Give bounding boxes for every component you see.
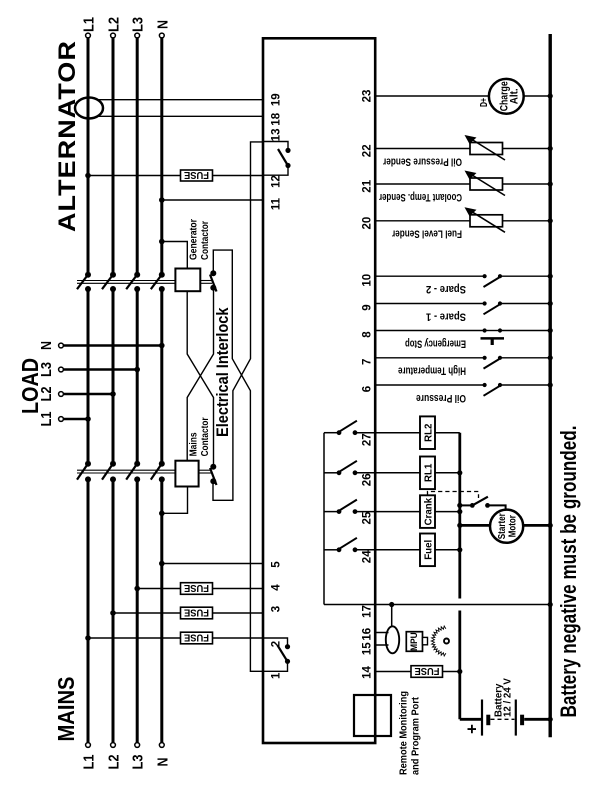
svg-text:Fuel Level Sender: Fuel Level Sender xyxy=(391,228,462,240)
wire terminal 6 upper xyxy=(375,384,484,386)
engine flywheel ring gear xyxy=(431,626,446,656)
node LOAD terminal L1 xyxy=(59,417,64,422)
svg-text:N: N xyxy=(38,341,55,350)
svg-text:17: 17 xyxy=(362,605,374,618)
node MAINS terminal L2 xyxy=(111,743,116,748)
input contact 9 xyxy=(483,301,503,314)
sender arrow Coolant Temp. Sender xyxy=(465,171,506,196)
wire relay Crank to positive rail xyxy=(435,511,460,513)
wire terminal 7 lower xyxy=(500,357,550,359)
svg-text:and Program Port: and Program Port xyxy=(411,697,422,775)
svg-text:Battery negative must be groun: Battery negative must be grounded. xyxy=(556,426,581,718)
label FUSE F2 xyxy=(184,582,209,594)
label terminal 6 xyxy=(362,386,374,392)
internal output common rail xyxy=(323,433,325,605)
wire alternator bus N right segment xyxy=(160,38,163,275)
wire bus L2 middle segment xyxy=(112,289,115,464)
junction bus tap terminal 2 xyxy=(85,635,91,641)
svg-text:Remote Monitoring: Remote Monitoring xyxy=(399,691,410,775)
generator contactor pole L3 left contact xyxy=(134,286,140,292)
wire terminal 20 lower xyxy=(503,220,551,222)
svg-text:Spare - 2: Spare - 2 xyxy=(426,283,466,295)
label relay Fuel xyxy=(424,540,435,560)
label D+ xyxy=(479,98,490,107)
mains contactor pole L1 blade xyxy=(77,464,88,480)
wire terminal 26 to relay box xyxy=(355,472,420,474)
junction 6 on negative bus xyxy=(548,382,553,387)
wire alternator bus L2 right segment xyxy=(112,38,115,275)
label ALTERNATOR terminal L2 xyxy=(106,17,123,32)
label terminal 13 xyxy=(271,129,283,142)
label MAINS terminal L1 xyxy=(81,755,98,770)
label input Spare - 1 xyxy=(426,310,466,322)
label Mains Contactor xyxy=(189,417,211,456)
label battery plus xyxy=(463,724,482,734)
wire interlock Q generator NC aux to mains coil xyxy=(187,288,213,461)
starter motor M1 xyxy=(490,510,523,543)
junction battery on negative bus xyxy=(548,717,553,722)
svg-text:6: 6 xyxy=(362,386,374,392)
flywheel center mark xyxy=(444,639,449,644)
wire interlock S terminal 13 to mains NC aux xyxy=(213,142,263,500)
node MAINS terminal L1 xyxy=(86,743,91,748)
svg-text:L1: L1 xyxy=(81,17,98,32)
generator contactor pole L1 left contact xyxy=(85,286,91,292)
junction starter motor feed on rail xyxy=(457,523,462,528)
label terminal 24 xyxy=(362,550,374,563)
svg-text:Oil Pressure: Oil Pressure xyxy=(416,392,466,404)
label terminal 26 xyxy=(362,473,374,486)
generator contactor pole L2 left contact xyxy=(110,286,116,292)
junction generator coil N tap xyxy=(159,239,165,245)
svg-text:Alt.: Alt. xyxy=(508,88,520,104)
generator contactor pole L2 right contact xyxy=(110,272,116,278)
svg-text:Motor: Motor xyxy=(506,515,518,537)
label terminal 25 xyxy=(362,511,374,524)
starter solenoid contact xyxy=(460,497,506,510)
svg-text:Emergency Stop: Emergency Stop xyxy=(405,337,466,349)
fuse F1 generator sensing xyxy=(181,170,213,181)
label terminal 21 xyxy=(362,179,374,192)
wire terminal 22 lower xyxy=(503,148,551,150)
label FUSE F5 xyxy=(415,665,440,677)
wire terminal 3 upper xyxy=(113,612,181,614)
label FUSE F4 xyxy=(184,631,209,643)
svg-text:20: 20 xyxy=(362,217,374,230)
input contact 10 xyxy=(483,274,503,287)
wire generator coil to N xyxy=(162,242,188,269)
label MPU xyxy=(409,632,419,651)
svg-text:High Temperature: High Temperature xyxy=(398,365,466,377)
wire terminal 12 from fuse to box xyxy=(213,175,264,177)
MPU pickup coil ellipse xyxy=(386,626,399,653)
wire mains bus L1 left segment xyxy=(87,479,90,742)
svg-text:18: 18 xyxy=(271,112,283,125)
node LOAD terminal L2 xyxy=(59,392,64,397)
junction 9 on negative bus xyxy=(548,301,553,306)
mains contactor NC aux contact xyxy=(210,464,217,485)
junction 17 on negative bus xyxy=(548,602,553,607)
label terminal 12 xyxy=(271,175,283,188)
label input High Temperature xyxy=(398,365,466,377)
sender resistor Oil Pressure Sender xyxy=(470,143,503,155)
junction LOAD L3 on bus xyxy=(134,367,140,373)
label Oil Pressure Sender xyxy=(382,155,462,167)
wire mains bus L3 left segment xyxy=(136,479,139,742)
wire terminal 14 lower xyxy=(443,671,460,673)
svg-text:Mains: Mains xyxy=(189,432,200,456)
label LOAD terminal L3 xyxy=(38,362,55,377)
wire terminal 20 upper xyxy=(375,220,470,222)
wire battery negative bus xyxy=(549,34,552,737)
node MAINS terminal N xyxy=(159,743,164,748)
svg-text:19: 19 xyxy=(271,93,283,106)
svg-text:11: 11 xyxy=(271,197,283,210)
battery B1 cell2 short plate xyxy=(520,715,524,726)
junction N tap terminal 11 xyxy=(159,197,165,203)
wire terminal 10 lower xyxy=(500,275,550,277)
svg-text:3: 3 xyxy=(271,606,283,612)
wire battery positive rail right segment xyxy=(458,433,461,599)
battery B1 cell1 short plate xyxy=(486,715,490,726)
svg-text:4: 4 xyxy=(271,584,283,591)
wire bus L1 middle segment xyxy=(87,289,90,464)
wire alternator bus L1 right segment xyxy=(87,38,90,275)
wire terminal 14 upper xyxy=(375,671,411,673)
generator contactor pole L2 blade xyxy=(102,275,113,290)
svg-text:8: 8 xyxy=(362,331,374,338)
junction starter solenoid branch on rail xyxy=(457,503,462,508)
battery dashed middle xyxy=(491,718,515,720)
wire terminal 25 to relay box xyxy=(355,511,420,513)
relay box Crank xyxy=(420,495,435,528)
junction 22 on negative bus xyxy=(548,146,553,151)
svg-text:21: 21 xyxy=(362,179,374,192)
fuse F2 mains sensing xyxy=(181,583,213,595)
label terminal 18 xyxy=(271,112,283,125)
svg-text:12: 12 xyxy=(271,175,283,188)
wire terminal 23 lower xyxy=(524,95,551,97)
junction LOAD L1 on bus xyxy=(85,416,91,422)
label input Emergency Stop xyxy=(405,337,466,349)
svg-text:L2: L2 xyxy=(38,387,55,402)
mains contactor pole L3 right contact xyxy=(134,461,140,467)
mains contactor pole L2 left contact xyxy=(110,476,116,482)
wire LOAD L3 drop xyxy=(64,368,138,371)
svg-text:15: 15 xyxy=(362,642,374,655)
svg-text:N: N xyxy=(154,20,171,29)
wire interlock P generator coil to mains NC aux xyxy=(187,291,213,467)
label input Spare - 2 xyxy=(426,283,466,295)
mains contactor pole L1 left contact xyxy=(85,476,91,482)
wire terminal 8 lower xyxy=(500,330,550,332)
label MAINS terminal L2 xyxy=(106,755,123,770)
svg-text:23: 23 xyxy=(362,90,374,103)
junction relay Fuel on positive rail xyxy=(457,547,462,552)
junction relay RL1 on positive rail xyxy=(457,470,462,475)
wire terminal 27 to relay box xyxy=(355,432,420,434)
label input Oil Pressure xyxy=(416,392,466,404)
wire rail to starter motor xyxy=(460,524,491,527)
mains contactor pole L2 right contact xyxy=(110,461,116,467)
label terminal 16 xyxy=(362,628,374,641)
junction 23 on negative bus xyxy=(548,93,553,98)
wire terminal 21 upper xyxy=(375,183,470,185)
junction 21 on negative bus xyxy=(548,181,553,186)
remote program port connector xyxy=(354,695,391,736)
svg-text:FUSE: FUSE xyxy=(184,582,209,594)
junction MPU branch on 17 xyxy=(389,602,394,607)
wire CT to terminal 19 xyxy=(97,99,263,101)
junction relay Crank on positive rail xyxy=(457,509,462,514)
svg-text:L1: L1 xyxy=(81,755,98,770)
mains contactor pole N left contact xyxy=(159,476,165,482)
svg-text:12 / 24 V: 12 / 24 V xyxy=(502,678,513,717)
wire alternator bus L3 right segment xyxy=(136,38,139,275)
label terminal 14 xyxy=(362,666,374,679)
wire terminal 5 xyxy=(162,563,263,565)
fuse F5 battery supply xyxy=(411,666,443,678)
svg-text:7: 7 xyxy=(362,359,374,365)
node LOAD terminal N xyxy=(59,343,64,348)
node ALTERNATOR terminal L2 xyxy=(111,33,116,38)
wire mains bus N left segment xyxy=(160,479,163,742)
label terminal 1 xyxy=(271,672,283,679)
svg-text:2: 2 xyxy=(271,641,283,647)
wire terminal 23 upper xyxy=(375,95,489,97)
mains contactor pole L3 blade xyxy=(126,464,137,480)
label terminal 2 xyxy=(271,641,283,647)
label terminal 27 xyxy=(362,433,374,446)
relay box Fuel xyxy=(420,534,435,567)
junction starter motor on negative bus xyxy=(548,523,553,528)
svg-text:L3: L3 xyxy=(130,17,147,32)
label terminal 22 xyxy=(362,144,374,157)
svg-text:10: 10 xyxy=(362,274,374,287)
generator contactor pole L3 right contact xyxy=(134,272,140,278)
wire terminal 8 upper xyxy=(375,330,484,332)
label terminal 17 xyxy=(362,605,374,618)
svg-text:FUSE: FUSE xyxy=(184,606,209,618)
wire terminal 6 lower xyxy=(500,384,550,386)
mains contactor mechanical linkage xyxy=(77,470,212,473)
emergency stop contact dots xyxy=(483,328,503,332)
wire LOAD L2 drop xyxy=(64,393,114,396)
wire terminal 9 lower xyxy=(500,303,550,305)
wire terminal 2 upper xyxy=(88,637,181,639)
label LOAD terminal N xyxy=(38,341,55,350)
wire terminal 12 from L1 upper xyxy=(88,175,181,177)
generator contactor mechanical linkage xyxy=(77,281,212,284)
svg-text:N: N xyxy=(154,758,171,767)
label terminal 8 xyxy=(362,331,374,338)
relay box RL2 xyxy=(420,416,435,449)
wire terminal 2 lower xyxy=(213,637,264,639)
battery B1 cell1 long plate xyxy=(481,700,483,736)
svg-text:9: 9 xyxy=(362,304,374,310)
wire terminal 24 to relay box xyxy=(355,549,420,551)
junction LOAD L2 on bus xyxy=(110,391,116,397)
wire terminal 15 to MPU xyxy=(375,644,388,646)
svg-text:26: 26 xyxy=(362,473,374,486)
wire terminal 3 lower xyxy=(213,612,264,614)
svg-text:27: 27 xyxy=(362,433,374,446)
label Fuel Level Sender xyxy=(391,228,462,240)
svg-text:25: 25 xyxy=(362,511,374,524)
mains contactor pole L3 left contact xyxy=(134,476,140,482)
label MAINS title xyxy=(53,677,79,742)
svg-text:Fuel: Fuel xyxy=(424,540,435,560)
label terminal 19 xyxy=(271,93,283,106)
label relay Crank xyxy=(424,497,435,525)
svg-text:L2: L2 xyxy=(106,755,123,770)
svg-text:5: 5 xyxy=(271,561,283,568)
label ALTERNATOR terminal L3 xyxy=(130,17,147,32)
generator contactor pole N right contact xyxy=(159,272,165,278)
wire interlock R terminal 1 to generator NC aux xyxy=(213,250,263,671)
svg-text:Oil Pressure Sender: Oil Pressure Sender xyxy=(382,155,462,167)
mains contactor pole L2 blade xyxy=(102,464,113,480)
junction N tap terminal 5 xyxy=(159,561,165,567)
wire bus N middle segment xyxy=(160,289,163,464)
label Coolant Temp. Sender xyxy=(378,191,462,203)
junction L1 tap terminal 12 xyxy=(85,173,91,179)
node LOAD terminal L3 xyxy=(59,367,64,372)
svg-text:MPU: MPU xyxy=(409,632,419,651)
label Electrical Interlock xyxy=(213,307,232,437)
wire terminal 4 upper xyxy=(137,588,180,590)
svg-text:13: 13 xyxy=(271,129,283,142)
label FUSE F1 xyxy=(184,169,209,181)
label terminal 11 xyxy=(271,197,283,210)
junction 8 on negative bus xyxy=(548,328,553,333)
svg-text:FUSE: FUSE xyxy=(184,631,209,643)
internal relay contact 25 xyxy=(324,500,357,514)
svg-text:Generator: Generator xyxy=(189,219,200,260)
charge alternator G1 xyxy=(489,79,524,114)
svg-text:Coolant Temp. Sender: Coolant Temp. Sender xyxy=(378,191,462,203)
junction LOAD N on bus xyxy=(159,343,165,349)
sender resistor Coolant Temp. Sender xyxy=(470,178,503,190)
label ALTERNATOR terminal N xyxy=(154,20,171,29)
label LOAD terminal L1 xyxy=(38,412,55,427)
svg-text:FUSE: FUSE xyxy=(184,169,209,181)
label LOAD title xyxy=(17,358,43,414)
junction bus tap terminal 3 xyxy=(110,610,116,616)
svg-text:ALTERNATOR: ALTERNATOR xyxy=(54,40,81,232)
mains contactor pole N right contact xyxy=(159,461,165,467)
wire MPU branch xyxy=(391,605,393,627)
label terminal 10 xyxy=(362,274,374,287)
dashed link crank relay to starter contact xyxy=(428,492,479,499)
wire LOAD L1 drop xyxy=(64,418,89,421)
wire mains bus L2 left segment xyxy=(112,479,115,742)
internal relay contact 13-12 xyxy=(263,142,291,176)
fuse F3 mains sensing xyxy=(181,607,213,619)
label Remote Monitoring and Program Port xyxy=(399,691,422,775)
label LOAD terminal L2 xyxy=(38,387,55,402)
junction 20 on negative bus xyxy=(548,218,553,223)
generator contactor coil K2 xyxy=(175,269,200,292)
wire relay RL1 to positive rail xyxy=(435,472,460,474)
label relay RL1 xyxy=(424,463,435,482)
MPU box xyxy=(406,632,427,652)
generator contactor pole L3 blade xyxy=(126,275,137,290)
mains contactor pole N blade xyxy=(151,464,162,480)
label terminal 5 xyxy=(271,561,283,568)
svg-text:RL2: RL2 xyxy=(424,424,435,442)
node ALTERNATOR terminal L1 xyxy=(86,33,91,38)
svg-text:Spare - 1: Spare - 1 xyxy=(426,310,466,322)
svg-text:14: 14 xyxy=(362,666,374,679)
junction bus tap terminal 4 xyxy=(134,586,140,592)
wire terminal 11 xyxy=(162,199,263,201)
label terminal 3 xyxy=(271,606,283,612)
relay box RL1 xyxy=(420,457,435,490)
svg-text:RL1: RL1 xyxy=(424,463,435,482)
label ALTERNATOR title xyxy=(54,40,81,232)
wire terminal 17 to negative bus xyxy=(324,604,550,606)
wire mains coil to N xyxy=(162,487,188,514)
svg-text:+: + xyxy=(463,724,482,734)
svg-text:L3: L3 xyxy=(38,362,55,377)
junction 7 on negative bus xyxy=(548,355,553,360)
label terminal 23 xyxy=(362,90,374,103)
svg-text:22: 22 xyxy=(362,144,374,157)
svg-text:L2: L2 xyxy=(106,17,123,32)
label terminal 20 xyxy=(362,217,374,230)
input contact 7 xyxy=(483,356,503,369)
label MAINS terminal N xyxy=(154,758,171,767)
input contact 6 xyxy=(483,383,503,396)
node MAINS terminal L3 xyxy=(135,743,140,748)
sender arrow Oil Pressure Sender xyxy=(465,135,506,160)
wire battery positive rail left segment xyxy=(458,611,461,720)
label Generator Contactor xyxy=(189,219,211,260)
label battery negative must be grounded xyxy=(556,426,581,718)
generator contactor pole L1 blade xyxy=(77,275,88,290)
wire relay RL2 to positive rail xyxy=(435,432,460,434)
label terminal 7 xyxy=(362,359,374,365)
internal relay contact 27 xyxy=(324,421,357,435)
wire relay Fuel to positive rail xyxy=(435,549,460,551)
internal relay contact 2-1 xyxy=(263,638,290,671)
svg-text:16: 16 xyxy=(362,628,374,641)
svg-text:FUSE: FUSE xyxy=(415,665,440,677)
fuse F4 mains sensing xyxy=(181,632,213,644)
current transformer CT1 xyxy=(75,98,103,119)
generator contactor pole N left contact xyxy=(159,286,165,292)
wire terminal 22 upper xyxy=(375,148,470,150)
node ALTERNATOR terminal L3 xyxy=(135,33,140,38)
svg-text:24: 24 xyxy=(362,550,374,563)
svg-text:Contactor: Contactor xyxy=(200,417,211,456)
label terminal 4 xyxy=(271,584,283,591)
wire terminal 9 upper xyxy=(375,303,484,305)
svg-text:Contactor: Contactor xyxy=(200,221,211,260)
sender arrow Fuel Level Sender xyxy=(465,207,506,232)
wire LOAD N drop xyxy=(64,344,162,347)
internal relay contact 24 xyxy=(324,538,357,552)
wire battery to negative bus xyxy=(524,718,550,721)
svg-text:Electrical Interlock: Electrical Interlock xyxy=(213,307,232,437)
wire bus L3 middle segment xyxy=(136,289,139,464)
mains contactor pole L1 right contact xyxy=(85,461,91,467)
node ALTERNATOR terminal N xyxy=(159,33,164,38)
label relay RL2 xyxy=(424,424,435,442)
wire terminal 10 upper xyxy=(375,275,484,277)
wire terminal 21 lower xyxy=(503,183,551,185)
